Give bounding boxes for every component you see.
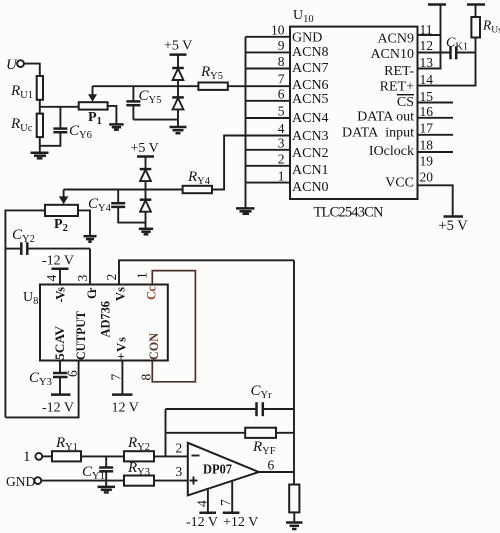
- svg-text:ACN7: ACN7: [292, 61, 329, 76]
- resistor RY4: [183, 169, 212, 193]
- pin 4 opamp to -12V: [186, 489, 218, 530]
- capacitor CY4: [88, 190, 146, 223]
- svg-text:CY2: CY2: [12, 227, 35, 245]
- svg-text:1: 1: [23, 449, 31, 465]
- svg-text:ACN10: ACN10: [370, 47, 414, 62]
- svg-text:P2: P2: [54, 217, 68, 234]
- capacitor CK1: [418, 36, 476, 60]
- pin 6 output wire: [259, 471, 294, 473]
- svg-text:-12 V: -12 V: [42, 254, 74, 269]
- svg-text:RET+: RET+: [380, 79, 414, 94]
- power 12V at pin7 U8: [112, 361, 139, 416]
- svg-text:TLC2543CN: TLC2543CN: [314, 205, 385, 221]
- svg-text:+5 V: +5 V: [131, 141, 159, 156]
- svg-text:6: 6: [278, 87, 285, 102]
- capacitor CY5: [126, 86, 161, 119]
- svg-text:6: 6: [268, 458, 275, 473]
- ground at P2: [84, 236, 97, 242]
- node terminal GND: [6, 474, 41, 489]
- svg-text:ACN5: ACN5: [292, 92, 329, 107]
- svg-text:3: 3: [176, 464, 183, 479]
- svg-text:CY6: CY6: [69, 123, 92, 141]
- svg-text:16: 16: [420, 104, 434, 119]
- capacitor CY6: [40, 107, 92, 146]
- wire CY5 bottom to diode: [133, 119, 178, 121]
- svg-text:GND: GND: [292, 31, 322, 46]
- svg-text:20: 20: [420, 170, 434, 185]
- svg-text:ACN8: ACN8: [292, 45, 329, 60]
- svg-text:+12 V: +12 V: [223, 515, 258, 530]
- wire pin8: [246, 68, 291, 70]
- svg-text:+Vs: +Vs: [115, 337, 129, 360]
- svg-text:ACN6: ACN6: [292, 78, 329, 93]
- svg-text:ACN9: ACN9: [377, 32, 414, 47]
- wire pin14 RET+: [418, 38, 476, 86]
- svg-text:12: 12: [420, 38, 434, 53]
- diode D4 to ground: [140, 190, 152, 229]
- wire row2 signal line: [64, 189, 183, 191]
- IC U8 AD736 body: [23, 285, 168, 361]
- svg-text:U8: U8: [23, 290, 38, 307]
- svg-text:RY3: RY3: [127, 460, 150, 478]
- capacitor CY2: [5, 227, 90, 255]
- svg-text:8: 8: [139, 374, 154, 381]
- resistor RUs: [471, 17, 500, 38]
- diode D2 to ground: [172, 86, 184, 127]
- svg-text:Cr: Cr: [85, 287, 99, 299]
- wire junction to P1: [40, 106, 79, 108]
- wire P2 right to ground: [78, 210, 90, 236]
- svg-text:CYr: CYr: [251, 383, 273, 401]
- wire pin15: [418, 102, 454, 104]
- svg-text:P1: P1: [88, 110, 102, 127]
- svg-text:7: 7: [278, 72, 285, 87]
- svg-text:4: 4: [278, 121, 285, 136]
- wire RY5 to chip pin7: [228, 85, 290, 87]
- resistor RU1: [10, 76, 43, 101]
- wire pin13 to +5V bar: [418, 5, 441, 69]
- svg-text:RY2: RY2: [127, 435, 150, 453]
- power +5V row1: [164, 39, 192, 68]
- svg-text:4: 4: [44, 275, 59, 282]
- svg-text:-12 V: -12 V: [186, 515, 218, 530]
- pin numbers left side: [271, 23, 285, 184]
- power +5V at VCC: [439, 217, 469, 234]
- wire pin5: [246, 117, 291, 119]
- svg-text:7: 7: [109, 374, 124, 381]
- svg-text:+5 V: +5 V: [439, 218, 469, 234]
- wire pin6 OUTPUT to left rail: [5, 361, 78, 418]
- ground under D4: [139, 229, 153, 235]
- svg-text:RU1: RU1: [10, 83, 33, 101]
- svg-text:5CAV: 5CAV: [53, 326, 67, 360]
- svg-text:ACN0: ACN0: [292, 180, 329, 195]
- svg-text:RET-: RET-: [384, 64, 414, 79]
- wire GND to RY3: [41, 480, 124, 482]
- resistor RY5: [198, 64, 227, 90]
- IC U10 TLC2543CN body: [290, 8, 418, 221]
- svg-text:U10: U10: [293, 8, 314, 25]
- svg-text:2: 2: [278, 152, 285, 167]
- diode D3 to +5V: [140, 169, 152, 189]
- wire pin2: [246, 165, 291, 167]
- pin names left side: [292, 31, 329, 196]
- wire pin6: [246, 100, 291, 102]
- wire pin10 GND: [246, 36, 291, 38]
- wire RU1 to RUc: [39, 100, 41, 114]
- wire to RY1: [42, 455, 52, 457]
- svg-text:ACN4: ACN4: [292, 111, 329, 126]
- wire CY2 to pin3 of U8: [89, 249, 91, 285]
- svg-text:ACN3: ACN3: [292, 129, 329, 144]
- node terminal 1: [23, 449, 42, 465]
- svg-text:RY4: RY4: [187, 169, 211, 187]
- svg-text:1: 1: [135, 272, 150, 279]
- svg-text:RUs: RUs: [482, 18, 500, 36]
- resistor RUc: [10, 114, 43, 138]
- svg-text:2: 2: [104, 274, 119, 281]
- svg-text:19: 19: [420, 154, 434, 169]
- power -12V at CY3: [42, 395, 74, 416]
- capacitor CY1: [82, 456, 113, 487]
- wire pin9: [246, 51, 291, 53]
- wire feedback node vertical: [165, 409, 167, 456]
- svg-text:ACN2: ACN2: [292, 146, 329, 161]
- op-amp DP07: [188, 443, 259, 496]
- svg-text:CY3: CY3: [29, 370, 52, 388]
- svg-text:7: 7: [218, 499, 233, 506]
- wire RY4 up to chip pin4 line: [212, 136, 290, 190]
- svg-text:DP07: DP07: [203, 463, 232, 478]
- svg-text:U: U: [6, 57, 18, 73]
- svg-text:3: 3: [278, 136, 285, 151]
- svg-text:CS: CS: [397, 95, 414, 110]
- ground at P1: [109, 124, 123, 129]
- potentiometer P1: [79, 86, 108, 127]
- svg-text:GND: GND: [6, 474, 35, 489]
- svg-text:8: 8: [278, 54, 285, 69]
- ground at output: [286, 523, 303, 530]
- svg-text:CY5: CY5: [139, 88, 162, 106]
- pin 7 opamp to +12V: [218, 481, 258, 530]
- resistor RYF: [166, 428, 295, 457]
- svg-text:RUc: RUc: [10, 116, 33, 134]
- resistor RY3: [124, 460, 154, 486]
- ground at bus: [236, 208, 255, 213]
- wire pin11: [418, 34, 441, 36]
- pin names right side: [342, 32, 414, 191]
- svg-text:CY4: CY4: [88, 196, 112, 214]
- svg-text:Cc: Cc: [145, 286, 159, 300]
- wire pin3: [246, 149, 291, 151]
- wire pin1: [246, 182, 291, 184]
- ground under D2: [170, 127, 187, 133]
- svg-text:2: 2: [176, 441, 183, 456]
- svg-text:3: 3: [75, 275, 90, 282]
- wire RY3 to op-amp pin3: [154, 480, 188, 482]
- potentiometer P2: [45, 190, 78, 235]
- wire P2 left to rail: [5, 210, 45, 417]
- svg-text:1: 1: [278, 168, 285, 183]
- svg-text:CON: CON: [147, 333, 161, 360]
- resistor load at output: [289, 472, 299, 522]
- wire Cc to CON loop: [152, 271, 195, 382]
- wire pin16: [418, 117, 454, 119]
- wire pin20 VCC to +5V: [418, 185, 453, 216]
- ground under RUc: [31, 153, 49, 159]
- svg-text:DATA out: DATA out: [357, 109, 414, 124]
- svg-text:17: 17: [420, 121, 434, 136]
- power +5V row2: [131, 141, 159, 169]
- wire row1 signal line: [93, 85, 199, 87]
- svg-text:CUTPUT: CUTPUT: [74, 310, 88, 360]
- svg-text:+5 V: +5 V: [164, 39, 192, 54]
- svg-text:Vs: Vs: [114, 287, 128, 301]
- pin numbers right side: [420, 22, 434, 185]
- svg-text:DATA input: DATA input: [342, 125, 414, 140]
- ground under CY1: [98, 487, 116, 493]
- wire RY1 to RY2: [81, 455, 124, 457]
- svg-text:RY5: RY5: [200, 64, 223, 82]
- resistor RY2: [124, 435, 154, 461]
- svg-text:VCC: VCC: [385, 175, 414, 190]
- wire pin18: [418, 151, 454, 153]
- diode D1 to +5V: [172, 68, 184, 86]
- wire pin2 U8 to feedback node: [119, 260, 294, 284]
- svg-text:AD736: AD736: [98, 301, 113, 338]
- svg-text:RYF: RYF: [252, 439, 276, 457]
- svg-text:10: 10: [271, 23, 285, 38]
- power bar top1: [428, 3, 446, 6]
- power bar top2: [467, 3, 485, 6]
- svg-text:4: 4: [195, 500, 210, 507]
- svg-text:IOclock: IOclock: [369, 144, 414, 159]
- wire P1 right to ground: [108, 106, 117, 124]
- wire pin17: [418, 134, 454, 136]
- svg-text:5: 5: [278, 104, 285, 119]
- svg-text:-Vs: -Vs: [54, 287, 68, 303]
- resistor RY1: [52, 435, 81, 461]
- svg-text:14: 14: [420, 72, 434, 87]
- wire input bus: [245, 37, 247, 209]
- capacitor CY3: [29, 361, 68, 394]
- svg-text:9: 9: [278, 38, 285, 53]
- svg-text:-12 V: -12 V: [42, 401, 74, 416]
- wire U to RU1: [24, 64, 40, 76]
- wire RY2 to op-amp pin2: [154, 455, 188, 457]
- wire RUs to power bar: [475, 5, 477, 18]
- svg-text:CK1: CK1: [446, 36, 468, 53]
- node U input terminal: [6, 57, 24, 73]
- svg-text:12 V: 12 V: [112, 401, 139, 416]
- svg-text:ACN1: ACN1: [292, 163, 329, 178]
- wire RUc to ground: [39, 137, 41, 153]
- wire long vertical feedback line: [293, 260, 295, 472]
- svg-text:RY1: RY1: [55, 435, 78, 453]
- svg-text:18: 18: [420, 138, 434, 153]
- capacitor CYr: [166, 383, 295, 416]
- power -12V at pin4 U8: [42, 254, 74, 285]
